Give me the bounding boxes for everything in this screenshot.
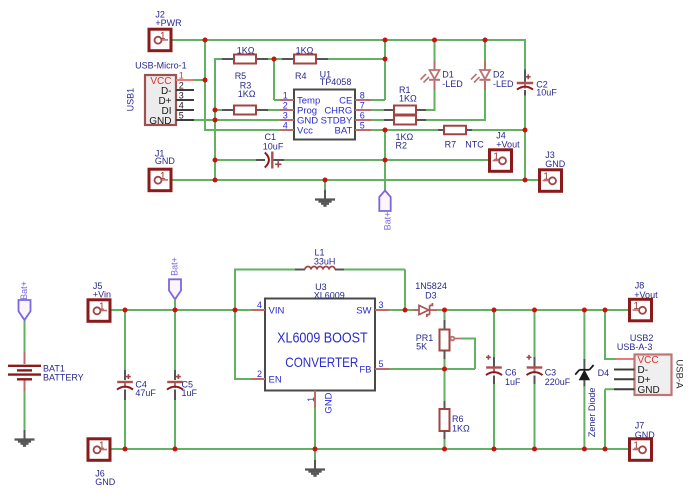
U3 pin 2 EN bbox=[251, 378, 265, 380]
wire BAT vertical to Bat+ bbox=[384, 130, 386, 190]
USB2 D- stub bbox=[614, 369, 635, 371]
diode D3 1N5824 bbox=[405, 309, 413, 311]
svg-text:-LED: -LED bbox=[493, 79, 514, 89]
U1 pin 4 Vcc bbox=[280, 129, 294, 131]
wire R7 right to GND vertical x=525 bbox=[472, 129, 525, 131]
zener diode D4 bbox=[583, 310, 585, 360]
junction (205,40) bbox=[203, 38, 208, 43]
wire ground symbol stem (top) bbox=[324, 180, 326, 191]
svg-text:USB1: USB1 bbox=[126, 88, 136, 112]
svg-text:GND: GND bbox=[545, 159, 566, 169]
svg-text:1: 1 bbox=[633, 301, 639, 312]
resistor R7 NTC bbox=[438, 129, 444, 131]
svg-text:BAT: BAT bbox=[335, 125, 353, 136]
svg-text:4: 4 bbox=[179, 101, 184, 111]
svg-text:GND: GND bbox=[635, 430, 656, 440]
svg-text:+Vout: +Vout bbox=[634, 290, 658, 300]
junction (325,180) bbox=[323, 178, 328, 183]
resistor R4 bbox=[282, 58, 294, 60]
svg-text:CONVERTER: CONVERTER bbox=[285, 354, 358, 370]
svg-text:GND: GND bbox=[149, 116, 171, 127]
svg-text:TP4058: TP4058 bbox=[320, 77, 352, 87]
svg-text:+Vout: +Vout bbox=[496, 140, 520, 150]
wire C6 branch bbox=[493, 310, 495, 358]
wire C1 row (BAT net) bbox=[215, 159, 256, 161]
junction (584.4,449) bbox=[582, 447, 587, 452]
connector J2 +PWR bbox=[149, 29, 171, 51]
junction (385,160) bbox=[383, 158, 388, 163]
svg-text:USB-A: USB-A bbox=[673, 359, 684, 389]
supply Bat+ top circuit bbox=[379, 191, 390, 212]
junction (444.5,369) bbox=[442, 367, 447, 372]
wire L1 to SW bbox=[344, 269, 405, 271]
wire C2 bottom to GND rail bbox=[524, 94, 526, 181]
svg-text:Bat+: Bat+ bbox=[170, 257, 180, 276]
wire USB2 VCC feed bbox=[604, 310, 606, 360]
svg-text:1: 1 bbox=[306, 397, 316, 402]
svg-text:4: 4 bbox=[283, 120, 288, 130]
svg-text:1uF: 1uF bbox=[182, 388, 198, 398]
svg-text:EN: EN bbox=[269, 375, 282, 386]
capacitor C3 220uF bbox=[534, 357, 536, 367]
junction (405,310) bbox=[403, 308, 408, 313]
svg-text:-LED: -LED bbox=[442, 79, 463, 89]
wire +5V rail corner down to C2 bbox=[524, 39, 526, 71]
svg-text:1KΩ: 1KΩ bbox=[237, 45, 255, 55]
op-amp U1 TP4058 bbox=[294, 90, 355, 140]
svg-text:2: 2 bbox=[283, 100, 288, 110]
U3 pin 1 GND bbox=[314, 391, 316, 410]
wire GND rail to J3 bbox=[525, 179, 545, 181]
wire C4 branch bbox=[124, 310, 126, 371]
capacitor C2 10uF bbox=[524, 70, 526, 82]
wire D1 anode to +5V rail bbox=[434, 40, 436, 61]
op-amp U3 XL6009 bbox=[265, 299, 375, 391]
svg-text:BATTERY: BATTERY bbox=[43, 372, 84, 382]
connector J4 +Vout bbox=[490, 150, 512, 172]
U1 pin 7 CHRG bbox=[355, 109, 371, 111]
svg-text:Bat+: Bat+ bbox=[382, 212, 392, 231]
svg-text:GND: GND bbox=[95, 477, 116, 487]
junction (385,130) bbox=[383, 128, 388, 133]
svg-text:USB-A-3: USB-A-3 bbox=[617, 342, 653, 352]
wire +5V top rail bbox=[167, 39, 525, 41]
USB2 GND stub bbox=[614, 388, 635, 390]
svg-text:5: 5 bbox=[360, 120, 365, 130]
resistor R1 bbox=[384, 109, 394, 111]
connector USB2 USB-A-3 bbox=[635, 355, 672, 396]
svg-text:1KΩ: 1KΩ bbox=[399, 93, 417, 103]
wire GND vertical x=215 bbox=[214, 58, 216, 181]
wire R1 to D1 cathode bbox=[425, 109, 435, 111]
svg-text:1: 1 bbox=[99, 440, 105, 451]
U1 pin 3 GND bbox=[280, 119, 294, 121]
svg-text:XL6009 BOOST: XL6009 BOOST bbox=[277, 331, 368, 347]
junction (205,80) bbox=[203, 78, 208, 83]
wire R5 to R4 row bbox=[268, 58, 294, 60]
connector J1 GND bbox=[149, 169, 171, 191]
wire BAT pin to R7 bbox=[370, 129, 438, 131]
svg-text:R7: R7 bbox=[445, 140, 457, 150]
svg-text:Zener Diode: Zener Diode bbox=[587, 388, 597, 438]
resistor R6 1K bbox=[444, 369, 446, 402]
svg-text:1KΩ: 1KΩ bbox=[296, 45, 314, 55]
wire R4 right to CE vertical bbox=[316, 58, 385, 60]
resistor R5 bbox=[222, 58, 234, 60]
USB1 pin 3 D+ stub bbox=[176, 99, 194, 101]
wire C3 branch bbox=[534, 310, 536, 358]
connector J6 GND bbox=[88, 439, 110, 461]
wire CE pullup vertical bbox=[384, 40, 386, 100]
connector J5 +Vin bbox=[88, 300, 110, 322]
junction (125,310) bbox=[123, 308, 128, 313]
wire GND rail top circuit bbox=[168, 179, 526, 181]
svg-text:5K: 5K bbox=[416, 341, 427, 351]
svg-text:NTC: NTC bbox=[465, 140, 484, 150]
svg-text:2: 2 bbox=[179, 81, 184, 91]
U3 pin 3 SW bbox=[375, 309, 389, 311]
junction (385,40) bbox=[383, 38, 388, 43]
capacitor C4 47uF bbox=[124, 370, 126, 380]
svg-text:1: 1 bbox=[633, 440, 639, 451]
battery BAT1 bbox=[24, 352, 26, 364]
svg-text:C1: C1 bbox=[265, 132, 277, 142]
svg-text:1: 1 bbox=[543, 171, 549, 182]
junction (215,180) bbox=[213, 178, 218, 183]
USB2 VCC pin wire bbox=[616, 358, 635, 360]
svg-text:1uF: 1uF bbox=[505, 377, 521, 387]
resistor R3 bbox=[222, 109, 234, 111]
wire R2 to D2 cathode bbox=[425, 119, 485, 121]
svg-text:3: 3 bbox=[179, 91, 184, 101]
wire R3 left to GND vertical bbox=[215, 109, 222, 111]
junction (525,180) bbox=[523, 178, 528, 183]
inductor L1 33uH bbox=[295, 269, 305, 271]
USB2 D+ stub bbox=[614, 378, 635, 380]
svg-text:47uF: 47uF bbox=[135, 388, 156, 398]
junction (494,310) bbox=[492, 308, 497, 313]
svg-text:6: 6 bbox=[360, 110, 365, 120]
svg-text:C3: C3 bbox=[545, 368, 557, 378]
svg-text:10uF: 10uF bbox=[536, 88, 557, 98]
wire USB VCC to J2 drop bbox=[193, 79, 206, 81]
junction (215,110) bbox=[213, 108, 218, 113]
svg-text:J7: J7 bbox=[635, 420, 645, 430]
svg-text:R2: R2 bbox=[396, 141, 408, 151]
svg-text:FB: FB bbox=[359, 365, 371, 376]
svg-text:7: 7 bbox=[360, 100, 365, 110]
svg-text:Bat+: Bat+ bbox=[19, 281, 29, 300]
wire GND rail bottom bbox=[108, 448, 636, 450]
wire D2 anode to +5V rail bbox=[484, 40, 486, 61]
USB1 pin 1 VCC stub bbox=[176, 79, 194, 81]
junction (444.5,449) bbox=[442, 447, 447, 452]
U1 pin 6 STDBY bbox=[355, 119, 371, 121]
svg-text:D4: D4 bbox=[598, 368, 610, 378]
svg-text:GND: GND bbox=[638, 385, 660, 396]
svg-text:8: 8 bbox=[360, 90, 365, 100]
svg-text:+PWR: +PWR bbox=[155, 18, 182, 28]
junction (534.5,310) bbox=[532, 308, 537, 313]
USB1 pin 5 GND stub bbox=[176, 119, 194, 121]
junction (175,310) bbox=[173, 308, 178, 313]
wire GND corner to R5 bbox=[214, 58, 222, 60]
svg-text:1: 1 bbox=[283, 90, 288, 100]
wire VIN/EN feed vertical x=235 bbox=[234, 270, 236, 380]
svg-text:GND: GND bbox=[155, 156, 176, 166]
svg-text:R4: R4 bbox=[295, 71, 307, 81]
supply Bat+ at C5 bbox=[169, 279, 181, 299]
connector J3 GND bbox=[540, 170, 562, 192]
junction (215,120) bbox=[213, 118, 218, 123]
U3 pin 5 FB bbox=[375, 368, 389, 370]
wire J2 drop to U1 Vcc bbox=[204, 40, 206, 130]
wire STDBY to R2 bbox=[370, 119, 385, 121]
junction (125,449) bbox=[123, 447, 128, 452]
capacitor C1 10uF bbox=[256, 159, 265, 161]
ground symbol top circuit bbox=[324, 190, 326, 200]
capacitor C5 1uF bbox=[174, 370, 176, 380]
USB1 pin 4 DI stub bbox=[176, 109, 194, 111]
USB1 pin 2 D- stub bbox=[176, 89, 194, 91]
svg-text:SW: SW bbox=[356, 306, 371, 317]
wire GND row USB pin5 to U1 GND bbox=[193, 119, 280, 121]
LED D2 bbox=[484, 61, 486, 71]
LED D1 bbox=[434, 61, 436, 71]
wire Temp feed from R5/R4 node bbox=[273, 59, 275, 100]
wire C5 branch bbox=[174, 310, 176, 371]
U3 pin 4 VIN bbox=[251, 309, 265, 311]
ground symbol battery bbox=[24, 430, 26, 440]
wire USB2 GND feed bbox=[605, 388, 614, 390]
junction (274,59) bbox=[272, 57, 277, 62]
svg-text:USB-Micro-1: USB-Micro-1 bbox=[135, 60, 187, 70]
junction (494,449) bbox=[492, 447, 497, 452]
wire PR1 wiper loop bbox=[461, 338, 475, 340]
U1 pin 8 CE bbox=[355, 99, 371, 101]
junction (605,310) bbox=[603, 308, 608, 313]
junction (485,40) bbox=[483, 38, 488, 43]
wire R3 right to Prog pin bbox=[268, 109, 281, 111]
svg-text:3: 3 bbox=[283, 110, 288, 120]
ground symbol U3 bbox=[314, 460, 316, 470]
wire +Vin row J5 to U3 VIN bbox=[108, 309, 251, 311]
svg-text:+Vin: +Vin bbox=[93, 290, 111, 300]
svg-text:4: 4 bbox=[257, 300, 262, 310]
junction (434.5,40) bbox=[432, 38, 437, 43]
connector USB1 USB-Micro-1 bbox=[145, 75, 176, 125]
svg-text:220uF: 220uF bbox=[545, 377, 571, 387]
potentiometer PR1 5K bbox=[444, 310, 446, 321]
svg-text:C6: C6 bbox=[505, 368, 517, 378]
junction (315,449) bbox=[313, 447, 318, 452]
svg-text:1: 1 bbox=[493, 151, 499, 162]
svg-text:VIN: VIN bbox=[269, 306, 285, 317]
svg-text:1: 1 bbox=[160, 171, 166, 182]
supply Bat+ battery branch bbox=[19, 300, 31, 320]
svg-text:1: 1 bbox=[179, 71, 184, 81]
svg-text:J8: J8 bbox=[635, 281, 645, 291]
svg-text:1KΩ: 1KΩ bbox=[452, 423, 470, 433]
wire CHRG to R1 bbox=[370, 109, 385, 111]
capacitor C6 1uF bbox=[493, 357, 495, 367]
U1 pin 1 Temp bbox=[280, 99, 294, 101]
junction (235,310) bbox=[233, 308, 238, 313]
junction (385,59) bbox=[383, 57, 388, 62]
svg-text:3: 3 bbox=[379, 300, 384, 310]
junction (605,449) bbox=[603, 447, 608, 452]
wire FB row bbox=[389, 368, 445, 370]
U1 pin 5 BAT bbox=[355, 129, 371, 131]
junction (584.4,310) bbox=[582, 308, 587, 313]
connector J7 GND bbox=[630, 439, 652, 461]
svg-text:10uF: 10uF bbox=[263, 141, 284, 151]
svg-text:R6: R6 bbox=[452, 414, 464, 424]
connector J8 +Vout bbox=[630, 299, 652, 321]
U1 pin 2 Prog bbox=[280, 109, 294, 111]
svg-text:GND: GND bbox=[323, 392, 334, 413]
junction (444.5,310) bbox=[442, 308, 447, 313]
junction (534.5,449) bbox=[532, 447, 537, 452]
svg-text:33uH: 33uH bbox=[314, 257, 336, 267]
svg-text:1KΩ: 1KΩ bbox=[238, 89, 256, 99]
wire U3 GND pin to rail bbox=[314, 408, 316, 461]
svg-text:5: 5 bbox=[379, 359, 384, 369]
resistor R2 bbox=[384, 119, 394, 121]
svg-text:1: 1 bbox=[99, 301, 105, 312]
svg-text:R5: R5 bbox=[235, 71, 247, 81]
junction (175,449) bbox=[173, 447, 178, 452]
svg-text:D3: D3 bbox=[425, 290, 437, 300]
wire battery branch bbox=[24, 319, 26, 353]
junction (215,160) bbox=[213, 158, 218, 163]
svg-text:XL6009: XL6009 bbox=[314, 290, 345, 300]
svg-text:Vcc: Vcc bbox=[297, 125, 313, 136]
svg-text:2: 2 bbox=[257, 369, 262, 379]
svg-text:5: 5 bbox=[179, 111, 184, 121]
junction (525,130) bbox=[523, 128, 528, 133]
wire output rail bbox=[445, 309, 637, 311]
svg-text:1: 1 bbox=[160, 31, 166, 42]
